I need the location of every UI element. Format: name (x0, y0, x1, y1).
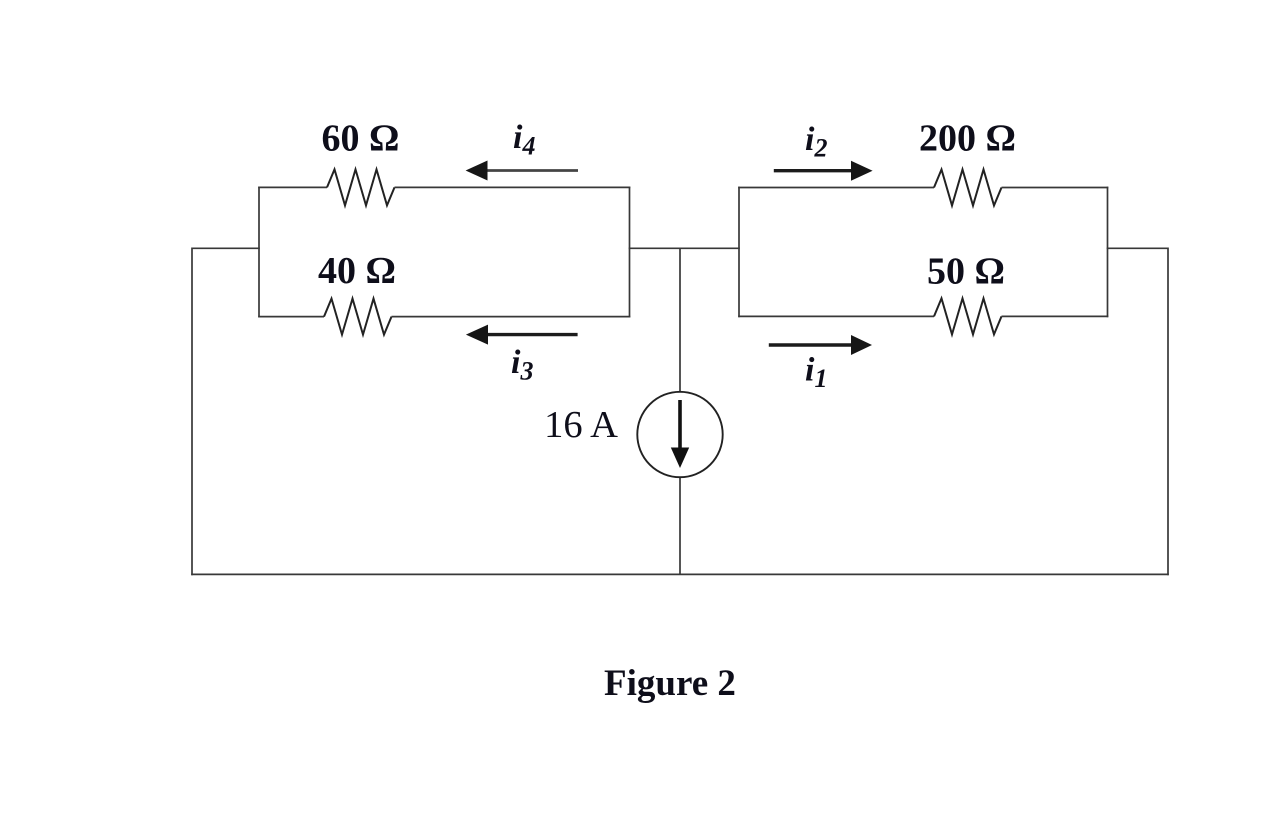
wire right loop bottom left segment (738, 315, 934, 317)
wire center vertical lower (679, 477, 681, 574)
svg-text:i4: i4 (513, 119, 535, 161)
wire left loop top left segment (258, 186, 327, 188)
svg-text:i1: i1 (805, 352, 827, 394)
wire outer left stub (192, 247, 260, 249)
wire left loop bottom right segment (392, 316, 631, 318)
arrow i4 (466, 161, 578, 181)
svg-text:50 Ω: 50 Ω (927, 251, 1005, 293)
wire bottom horizontal (191, 573, 1169, 575)
wire left loop left vertical (258, 187, 260, 318)
resistor 50 ohm (934, 298, 1002, 334)
svg-text:16 A: 16 A (544, 404, 618, 446)
arrow i1 (769, 335, 872, 355)
wire outer right stub (1107, 247, 1168, 249)
arrow i2 (774, 161, 873, 181)
resistor 40 ohm (324, 299, 392, 335)
wire middle link (629, 247, 740, 249)
arrow i3 (466, 325, 578, 345)
svg-text:40 Ω: 40 Ω (318, 250, 396, 292)
current source 16 A circle (637, 392, 722, 477)
svg-text:60 Ω: 60 Ω (322, 118, 400, 160)
wire right loop top right segment (1002, 187, 1109, 189)
wire right loop bottom right segment (1002, 315, 1109, 317)
wire right loop right vertical (1107, 187, 1109, 318)
wire center vertical upper (679, 248, 681, 392)
wire outer left vertical (191, 248, 193, 576)
resistor 60 ohm (327, 169, 395, 205)
wire left loop top right segment (395, 186, 631, 188)
wire left loop right vertical (629, 187, 631, 318)
wire outer right vertical (1167, 248, 1169, 576)
wire left loop bottom left segment (258, 316, 324, 318)
wire right loop left vertical (738, 187, 740, 318)
resistor 200 ohm (934, 170, 1002, 206)
svg-text:i2: i2 (805, 121, 827, 163)
svg-text:Figure 2: Figure 2 (604, 663, 736, 704)
svg-text:i3: i3 (511, 344, 533, 386)
current source arrow (671, 400, 689, 468)
svg-text:200 Ω: 200 Ω (919, 118, 1016, 160)
wire right loop top left segment (738, 187, 934, 189)
